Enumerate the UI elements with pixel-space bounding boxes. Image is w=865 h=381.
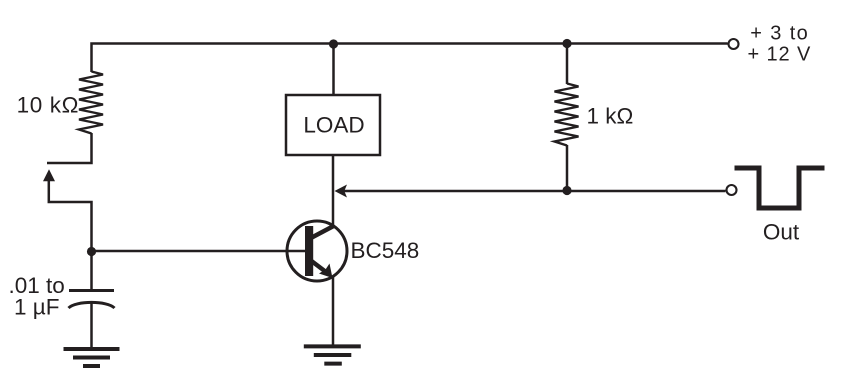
svg-text:1 kΩ: 1 kΩ bbox=[587, 104, 634, 129]
svg-text:+ 3 to: + 3 to bbox=[750, 23, 809, 45]
svg-text:Out: Out bbox=[763, 219, 800, 244]
svg-text:+ 12 V: + 12 V bbox=[748, 44, 812, 66]
svg-text:1 µF: 1 µF bbox=[14, 295, 59, 320]
svg-text:BC548: BC548 bbox=[351, 238, 420, 263]
svg-text:LOAD: LOAD bbox=[303, 112, 364, 137]
svg-text:10 kΩ: 10 kΩ bbox=[17, 93, 79, 118]
